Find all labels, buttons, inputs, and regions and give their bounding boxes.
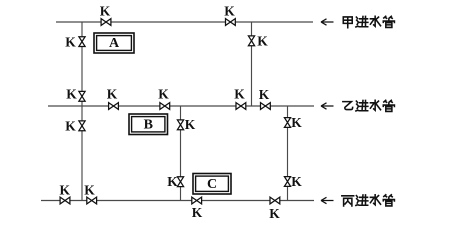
svg-text:K: K bbox=[84, 182, 95, 197]
svg-text:K: K bbox=[192, 205, 203, 220]
svg-text:K: K bbox=[234, 87, 245, 102]
svg-text:K: K bbox=[60, 182, 71, 197]
svg-text:K: K bbox=[65, 34, 76, 49]
svg-text:K: K bbox=[100, 4, 111, 19]
svg-text:K: K bbox=[158, 86, 169, 101]
svg-text:K: K bbox=[291, 174, 302, 189]
svg-text:K: K bbox=[66, 86, 77, 101]
svg-text:B: B bbox=[144, 117, 153, 132]
svg-text:K: K bbox=[291, 115, 302, 130]
svg-text:K: K bbox=[107, 86, 118, 101]
svg-text:C: C bbox=[207, 177, 217, 192]
svg-text:K: K bbox=[269, 206, 280, 221]
svg-text:K: K bbox=[259, 87, 270, 102]
svg-text:K: K bbox=[167, 174, 178, 189]
svg-text:K: K bbox=[185, 117, 196, 132]
svg-text:A: A bbox=[109, 36, 120, 51]
svg-text:K: K bbox=[224, 4, 235, 19]
svg-text:K: K bbox=[65, 119, 76, 134]
svg-text:K: K bbox=[257, 34, 268, 49]
